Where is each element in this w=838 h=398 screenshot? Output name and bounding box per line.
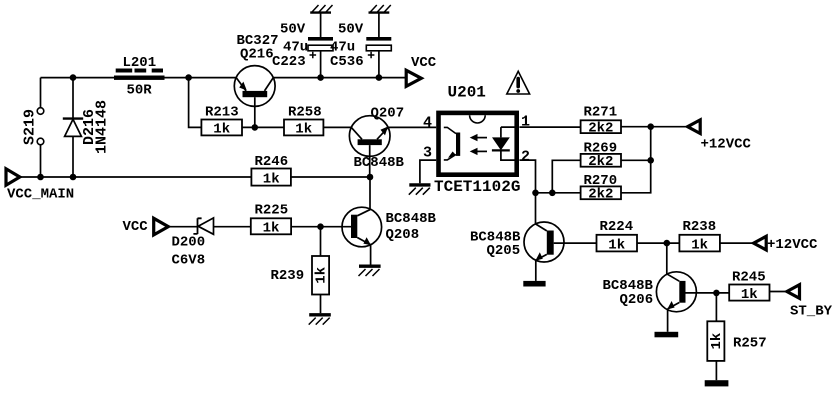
svg-text:50R: 50R — [127, 83, 153, 99]
wire L201 to Q216 — [165, 77, 237, 79]
node junction dots on bottom rail — [37, 174, 44, 181]
node junction R269 right — [647, 157, 654, 164]
node junction Q206 base/R245/R257 — [713, 290, 720, 297]
svg-text:3: 3 — [423, 145, 432, 162]
svg-text:1: 1 — [521, 114, 530, 131]
svg-text:BC848B: BC848B — [386, 211, 437, 227]
svg-text:R245: R245 — [732, 269, 766, 285]
svg-text:R271: R271 — [584, 104, 618, 120]
node junction L201 right — [185, 74, 192, 81]
LED inside U201 — [492, 127, 515, 160]
svg-text:ST_BY: ST_BY — [790, 304, 833, 320]
svg-text:VCC: VCC — [123, 219, 149, 235]
svg-text:BC848B: BC848B — [354, 155, 405, 171]
svg-text:1k: 1k — [741, 287, 758, 303]
resistor R271 2k2 — [581, 104, 621, 136]
capacitor C536 47u 50V — [330, 21, 391, 77]
transistor Q216 BC327 — [234, 33, 278, 127]
svg-text:U201: U201 — [448, 84, 486, 102]
svg-text:VCC: VCC — [411, 55, 437, 71]
svg-text:1k: 1k — [213, 122, 230, 138]
inductor L201 50R — [114, 55, 165, 99]
resistor R245 1k — [729, 269, 769, 303]
wire junction down to Q208 collector — [369, 177, 371, 209]
wire R225 to Q208 base — [291, 226, 351, 228]
wire R246 to Q207 bottom — [291, 176, 370, 178]
resistor R225 1k — [251, 203, 291, 237]
wire R213 to R258 — [242, 126, 284, 128]
svg-text:1k: 1k — [314, 267, 330, 284]
connector +12VCC arrow lower — [754, 236, 818, 253]
wire VCC_MAIN bottom rail — [20, 176, 252, 178]
wire right bus R271/R269/R270 — [621, 127, 651, 193]
connector VCC arrow left — [123, 218, 169, 235]
svg-text:50V: 50V — [338, 21, 364, 37]
svg-text:1k: 1k — [691, 237, 708, 253]
node junction R224/R238/Q206 — [664, 240, 671, 247]
svg-text:Q208: Q208 — [386, 227, 420, 243]
svg-text:VCC_MAIN: VCC_MAIN — [7, 187, 74, 203]
svg-text:R257: R257 — [733, 335, 767, 351]
ground top for C223 — [310, 5, 332, 37]
svg-text:S219: S219 — [21, 109, 38, 145]
wire Q207 to U201 pin4 — [388, 126, 436, 128]
ground R257 solid bar — [705, 380, 729, 386]
svg-text:1k: 1k — [709, 333, 725, 350]
svg-text:D200: D200 — [172, 235, 206, 251]
wire D216 vertical — [72, 78, 74, 177]
resistor R258 1k — [284, 104, 323, 137]
svg-text:+12VCC: +12VCC — [767, 237, 818, 253]
connector VCC arrow top — [406, 55, 437, 86]
wire pin2 net branches — [536, 160, 581, 193]
wire VCC to D200 — [168, 226, 197, 228]
node junction R271 right — [647, 123, 654, 130]
wire R239 top — [320, 227, 322, 256]
ground Q205 solid bar — [523, 281, 545, 287]
wire R258 to Q207 — [323, 126, 351, 128]
resistor R238 1k — [679, 219, 720, 253]
wire R257 top — [715, 293, 717, 321]
svg-text:R239: R239 — [271, 268, 305, 284]
svg-text:R246: R246 — [255, 154, 289, 170]
ground top for C536 — [369, 5, 391, 37]
wire U201 pin3 to ground — [420, 160, 436, 183]
wire U201 pin2 — [519, 160, 535, 224]
svg-text:TCET1102G: TCET1102G — [434, 178, 520, 196]
svg-text:R224: R224 — [600, 219, 634, 235]
wire R245 to ST_BY — [770, 291, 787, 293]
resistor R269 2k2 — [581, 141, 621, 170]
svg-text:2: 2 — [521, 149, 530, 166]
svg-text:R238: R238 — [683, 219, 717, 235]
connector ST_BY arrow — [787, 285, 833, 320]
wire Q205 base to R224 — [554, 242, 597, 244]
svg-text:2k2: 2k2 — [588, 186, 613, 202]
node junction pin2 net — [532, 190, 539, 197]
wire R271 to +12VCC — [621, 126, 688, 128]
wire down to R213 — [189, 78, 202, 128]
wire Q206 base to R245 — [686, 292, 730, 294]
connector VCC_MAIN arrow — [6, 169, 74, 203]
transistor Q207 BC848B — [349, 106, 404, 178]
svg-text:50V: 50V — [280, 21, 306, 37]
ground U201 pin3 — [409, 185, 431, 195]
transistor Q208 BC848B — [342, 207, 437, 265]
resistor R239 1k vertical — [271, 256, 330, 295]
svg-text:2k2: 2k2 — [588, 154, 613, 170]
wire U201 pin1 to R271 — [519, 126, 580, 128]
svg-text:1k: 1k — [263, 171, 280, 187]
connector +12VCC arrow upper — [688, 120, 752, 152]
wire Q216 to caps and VCC — [273, 77, 406, 79]
switch S219 — [21, 108, 44, 145]
node junction R225/R239/Q208 — [317, 223, 324, 230]
wire D200 to R225 — [214, 226, 251, 228]
transistor Q206 BC848B — [603, 272, 697, 332]
phototransistor inside U201 — [444, 127, 460, 159]
wire R238 to +12VCC — [720, 242, 754, 244]
svg-text:Q205: Q205 — [487, 243, 521, 259]
ground R239 — [309, 315, 331, 325]
wire top rail left — [41, 77, 115, 79]
ground Q206 solid bar — [655, 332, 679, 338]
resistor R257 1k vertical — [707, 321, 766, 361]
node junction Q216 collector — [252, 124, 259, 131]
diode D216 1N4148 — [63, 100, 111, 154]
wire S219 vertical stubs — [40, 78, 42, 177]
wire Q206 collector from junction — [666, 243, 668, 274]
resistor R246 1k — [251, 154, 291, 187]
svg-text:1k: 1k — [263, 220, 280, 236]
capacitor C223 47u 50V — [272, 21, 333, 77]
svg-text:Q207: Q207 — [371, 106, 405, 122]
svg-text:4: 4 — [423, 114, 432, 131]
svg-text:C223: C223 — [272, 54, 306, 70]
svg-text:L201: L201 — [123, 55, 157, 71]
node junction C536 — [376, 74, 383, 81]
diode D200 zener C6V8 — [172, 218, 214, 268]
node junction C223 — [317, 74, 324, 81]
resistor R224 1k — [597, 219, 638, 253]
resistor R213 1k — [201, 104, 242, 137]
svg-text:1k: 1k — [608, 237, 625, 253]
light arrows inside U201 — [470, 134, 487, 155]
svg-text:R225: R225 — [255, 203, 289, 219]
svg-text:1k: 1k — [295, 122, 312, 138]
wire R224 to R238 — [637, 242, 679, 244]
warning triangle — [507, 71, 530, 94]
wire R239 bottom — [320, 295, 322, 314]
svg-text:C536: C536 — [330, 54, 364, 70]
svg-text:C6V8: C6V8 — [172, 252, 206, 268]
resistor R270 2k2 — [581, 173, 621, 202]
op-isolator U201 TCET1102G — [434, 84, 520, 197]
transistor Q205 BC848B — [470, 222, 564, 281]
svg-text:Q206: Q206 — [620, 292, 654, 308]
node junction at D216 top — [70, 74, 77, 81]
svg-text:2k2: 2k2 — [588, 120, 613, 136]
svg-text:R258: R258 — [288, 104, 322, 120]
ground Q208 emitter — [359, 266, 381, 276]
wire R257 bottom — [715, 361, 717, 380]
svg-text:1N4148: 1N4148 — [93, 100, 110, 154]
svg-text:+12VCC: +12VCC — [701, 136, 752, 152]
svg-text:Q216: Q216 — [240, 47, 274, 63]
svg-text:R213: R213 — [205, 104, 239, 120]
node junction Q207/Q208 — [367, 174, 374, 181]
